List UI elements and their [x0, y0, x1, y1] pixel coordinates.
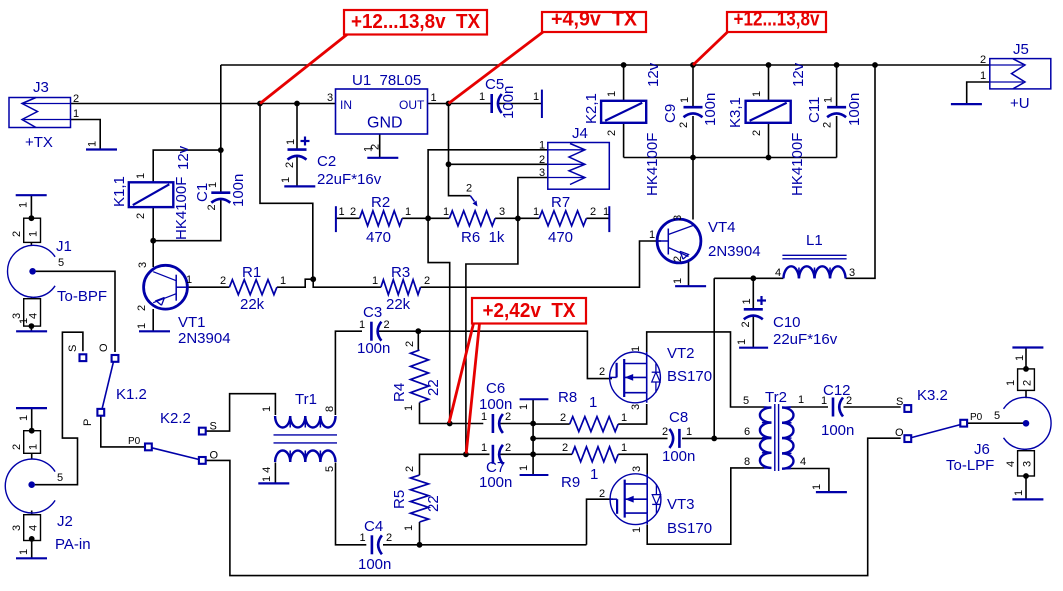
svg-text:J3: J3: [33, 79, 49, 96]
switch K3.2 pole P0: [960, 420, 967, 427]
capacitor C6: [492, 414, 495, 433]
svg-text:3: 3: [137, 262, 149, 268]
svg-text:2: 2: [562, 442, 568, 454]
svg-text:1: 1: [621, 412, 627, 424]
svg-text:2: 2: [404, 466, 416, 472]
svg-text:BS170: BS170: [667, 520, 712, 537]
svg-text:J5: J5: [1013, 41, 1029, 58]
svg-text:J4: J4: [572, 125, 588, 142]
svg-text:22k: 22k: [386, 296, 411, 313]
svg-text:Tr2: Tr2: [765, 389, 787, 406]
wire C9 bottom: [692, 116, 694, 158]
wire J6 shield top to circle: [1025, 390, 1027, 398]
wire R8 left: [533, 423, 570, 425]
wire R9 to VT3 drain: [618, 454, 647, 474]
ground Tr1: [258, 482, 289, 484]
wire Tr1 pin5 to C4: [336, 463, 367, 545]
svg-text:1: 1: [18, 415, 30, 421]
connector J5: [990, 59, 1051, 89]
wire J2 pin5 to K1.2 S: [35, 332, 83, 485]
wire relay bottom rail: [624, 157, 837, 159]
svg-text:O: O: [98, 343, 110, 352]
ground VT1: [139, 330, 170, 332]
node C2 tap: [294, 101, 300, 107]
J6 shield pin block bottom: [1018, 451, 1035, 476]
wire VT3 source to Tr2 pin8: [647, 468, 764, 544]
J2 shield pin block top: [24, 431, 41, 454]
svg-text:1: 1: [431, 92, 437, 104]
svg-text:VT2: VT2: [667, 345, 695, 362]
svg-text:1: 1: [207, 182, 219, 188]
svg-text:1: 1: [980, 70, 986, 82]
wire C10 top: [752, 278, 754, 309]
wire C7 left to R5: [420, 454, 490, 475]
wire R5 bottom: [419, 522, 421, 545]
wire K3.1 pin2: [768, 123, 770, 158]
node rail/C11: [834, 62, 840, 68]
svg-text:100n: 100n: [846, 93, 863, 126]
callout +2,42v TX: [472, 298, 586, 324]
svg-text:IN: IN: [340, 98, 352, 112]
svg-text:2: 2: [73, 93, 79, 105]
node column/C6: [530, 421, 536, 427]
node C3/R4: [415, 328, 421, 334]
capacitor C4: [371, 535, 374, 554]
wire J6 shield bottom: [1025, 449, 1027, 451]
svg-text:3: 3: [630, 404, 642, 410]
svg-text:100n: 100n: [357, 340, 390, 357]
capacitor C11: [827, 106, 846, 109]
svg-text:R3: R3: [391, 264, 410, 281]
svg-text:+U: +U: [1010, 95, 1030, 112]
svg-text:VT3: VT3: [667, 496, 695, 513]
svg-text:1: 1: [603, 206, 609, 218]
resistor R5 (vertical): [411, 475, 429, 522]
svg-text:1: 1: [285, 139, 297, 145]
svg-text:+4,9v TX: +4,9v TX: [551, 9, 638, 31]
svg-text:2: 2: [599, 366, 605, 378]
callout +12...13,8v TX: [344, 10, 487, 35]
svg-text:100n: 100n: [500, 86, 517, 119]
svg-text:2: 2: [678, 122, 690, 128]
svg-text:S: S: [896, 396, 903, 408]
node column/C8: [530, 436, 536, 442]
wire J4 pin2: [449, 163, 548, 165]
svg-text:U1 78L05: U1 78L05: [352, 72, 421, 89]
wire J1 pin5 to K1.2 O: [36, 271, 115, 352]
relay coil K1.1: [129, 182, 174, 207]
svg-text:4: 4: [775, 267, 781, 279]
svg-text:To-LPF: To-LPF: [946, 457, 994, 474]
wire VT2 drain to Tr2 pin5: [647, 332, 764, 407]
svg-text:S: S: [210, 421, 217, 433]
svg-text:1: 1: [28, 444, 40, 450]
svg-text:2: 2: [505, 411, 511, 423]
svg-text:1: 1: [686, 426, 692, 438]
svg-text:1: 1: [589, 394, 597, 411]
svg-text:2: 2: [822, 122, 834, 128]
svg-text:1: 1: [606, 91, 618, 97]
svg-text:1: 1: [1014, 355, 1026, 361]
wire K2.2 S to Tr1 pin1: [206, 394, 276, 431]
svg-text:1: 1: [533, 91, 539, 103]
node J2 shield bottom: [29, 536, 35, 542]
resistor R7: [539, 211, 586, 226]
resistor R8: [570, 417, 619, 432]
wire J1 shield bottom: [30, 297, 32, 299]
svg-text:470: 470: [366, 229, 391, 246]
switch K2.2 contact S: [199, 428, 206, 435]
wire K1.1 pin2 down: [152, 207, 154, 241]
resistor R3: [381, 280, 421, 295]
svg-text:J2: J2: [57, 513, 73, 530]
stub test point bottom: [520, 474, 549, 476]
svg-text:2: 2: [672, 256, 684, 262]
wire R2 to R6 junction: [402, 217, 449, 219]
switch K1.2 lever: [102, 362, 114, 410]
svg-text:+TX: +TX: [25, 134, 53, 151]
svg-text:1: 1: [403, 525, 415, 531]
svg-text:PA-in: PA-in: [55, 536, 91, 553]
capacitor C7: [492, 445, 495, 464]
J2 shield pin block bottom: [24, 515, 41, 541]
wire C2 top: [296, 104, 298, 150]
svg-text:1: 1: [135, 173, 147, 179]
svg-text:GND: GND: [367, 115, 403, 132]
svg-text:2: 2: [539, 154, 545, 166]
wire VT3 gate: [587, 499, 614, 545]
svg-text:2: 2: [350, 206, 356, 218]
wire VT1 collector to R1: [188, 286, 229, 288]
svg-text:C6: C6: [486, 380, 505, 397]
leader line callout 4a: [449, 324, 474, 424]
wiper arrow R6: [470, 196, 474, 202]
wire C8 row left: [532, 437, 534, 439]
svg-text:2: 2: [220, 275, 226, 287]
wire C9 top: [692, 65, 694, 107]
switch K1.2 contact S: [80, 354, 87, 361]
svg-text:22uF*16v: 22uF*16v: [773, 331, 838, 348]
svg-text:100n: 100n: [358, 556, 391, 573]
wire R6-left junction down to C6 row: [428, 218, 450, 423]
svg-text:L1: L1: [806, 232, 823, 249]
svg-text:C8: C8: [669, 409, 688, 426]
svg-text:1: 1: [481, 442, 487, 454]
wire mid row to C8: [533, 437, 667, 439]
svg-text:2: 2: [384, 319, 390, 331]
wire R9 left: [533, 453, 572, 455]
svg-text:1: 1: [533, 206, 539, 218]
svg-text:22uF*16v: 22uF*16v: [317, 171, 382, 188]
wire Tr2 pin1 to C12: [791, 406, 828, 408]
svg-text:1: 1: [741, 298, 753, 304]
svg-text:4: 4: [1005, 461, 1017, 467]
wire R3 to VT4 base: [421, 241, 662, 287]
svg-text:VT1: VT1: [178, 314, 206, 331]
svg-text:R1: R1: [242, 264, 261, 281]
svg-text:5: 5: [324, 466, 336, 472]
leader line callout 4b: [466, 324, 479, 454]
svg-text:C4: C4: [364, 518, 383, 535]
svg-text:1: 1: [751, 91, 763, 97]
svg-text:2: 2: [846, 395, 852, 407]
node J4 pin2: [446, 161, 452, 167]
svg-text:R7: R7: [551, 194, 570, 211]
svg-text:K3.2: K3.2: [917, 387, 948, 404]
wire +12 TX branch from rail B to R1/R3 node: [260, 104, 313, 280]
svg-text:3: 3: [849, 267, 855, 279]
transistor VT4 2N3904: [657, 219, 701, 263]
svg-text:2: 2: [560, 412, 566, 424]
ground +TX: [86, 148, 117, 150]
svg-text:3: 3: [539, 167, 545, 179]
stub pin C5 right: [541, 90, 543, 118]
svg-text:S: S: [67, 345, 79, 352]
wire rail A left drop to C1/K1.1 net: [220, 65, 222, 193]
switch K3.2 contact O: [904, 435, 911, 442]
node R6/R7: [515, 216, 521, 222]
capacitor C10 (polarized): [744, 308, 763, 311]
node rail/K2.1: [621, 62, 627, 68]
svg-text:1: 1: [1013, 490, 1025, 496]
svg-text:R8: R8: [558, 389, 577, 406]
svg-text:1: 1: [339, 206, 345, 218]
wire K2.1 pin1: [623, 65, 625, 101]
resistor R6 potentiometer: [449, 211, 495, 226]
switch K2.2 pole P0: [145, 444, 152, 451]
wire C5 to open stub: [499, 103, 542, 105]
node relay rail/K3.1 pin2: [766, 155, 772, 161]
svg-text:J1: J1: [56, 238, 72, 255]
node C4/R5: [417, 542, 423, 548]
node J6 shield bottom: [1023, 473, 1029, 479]
connector J3: [9, 98, 71, 128]
node +12TX at leader 1: [257, 101, 263, 107]
svg-text:22: 22: [425, 379, 442, 396]
J6 shield pin block top: [1018, 369, 1035, 391]
svg-text:2: 2: [284, 162, 296, 168]
wire +U rail A top: [221, 64, 990, 66]
switch K3.2 contact S: [904, 405, 911, 412]
svg-text:2: 2: [1022, 380, 1034, 386]
svg-text:3: 3: [499, 206, 505, 218]
svg-text:C9: C9: [662, 104, 679, 123]
svg-text:8: 8: [324, 406, 336, 412]
svg-text:2: 2: [599, 488, 605, 500]
svg-text:1: 1: [280, 177, 292, 183]
wire J1 shield top to circle: [30, 242, 32, 245]
svg-text:2: 2: [740, 321, 752, 327]
svg-text:1: 1: [630, 346, 642, 352]
node rail/K3.1: [766, 62, 772, 68]
node C8/Tr2 pin6: [711, 436, 717, 442]
svg-text:To-BPF: To-BPF: [57, 288, 107, 305]
wire K3.2 P0 to J6 pin5: [968, 422, 1024, 424]
svg-text:2N3904: 2N3904: [708, 243, 761, 260]
node rail/L1: [872, 62, 878, 68]
J1 shield pin block top: [24, 218, 41, 242]
svg-text:12v: 12v: [790, 62, 807, 87]
svg-text:2N3904: 2N3904: [178, 330, 231, 347]
switch K2.2 contact O: [199, 457, 206, 464]
svg-text:+12...13,8v: +12...13,8v: [734, 9, 821, 31]
svg-text:HK4100F: HK4100F: [173, 177, 190, 240]
node L1/C10: [750, 275, 756, 281]
wire Tr1 pin8 to C3: [335, 331, 362, 415]
capacitor C3: [370, 322, 373, 341]
svg-text:1: 1: [649, 229, 655, 241]
svg-text:5: 5: [743, 395, 749, 407]
svg-text:6: 6: [744, 426, 750, 438]
svg-text:P0: P0: [970, 412, 983, 423]
svg-text:12v: 12v: [645, 62, 662, 87]
wire J1 shield bottom to ground: [30, 326, 32, 331]
svg-text:1: 1: [621, 442, 627, 454]
leader line callout 3: [693, 32, 728, 65]
svg-text:K2.2: K2.2: [160, 410, 191, 427]
svg-text:2: 2: [135, 213, 147, 219]
wire J5 pin1 to ground: [967, 82, 990, 104]
wire U1 GND pin: [379, 134, 381, 158]
svg-text:1: 1: [28, 231, 40, 237]
wire +TX rail B: [71, 103, 337, 105]
leader line callout 2: [449, 32, 544, 104]
svg-text:100n: 100n: [479, 474, 512, 491]
svg-text:1: 1: [18, 318, 30, 324]
svg-text:R9: R9: [561, 474, 580, 491]
node relay rail/VT4: [690, 155, 696, 161]
wire 4.9v net down to J4 pin2 / R6 wiper: [449, 104, 471, 196]
wire K2.1 pin2: [623, 123, 625, 158]
node rail/C9 leader 3: [690, 62, 696, 68]
svg-text:2: 2: [11, 444, 23, 450]
ground J5: [951, 103, 982, 105]
svg-text:2: 2: [466, 183, 472, 195]
capacitor C12: [832, 398, 835, 417]
svg-text:2: 2: [370, 144, 382, 150]
ground U1: [367, 157, 398, 159]
capacitor C2 (polarized): [288, 148, 307, 151]
node K1.1 pin2/VT1 base: [150, 238, 156, 244]
wire J2 shield bottom: [31, 511, 33, 515]
ground Tr2 pin4: [816, 491, 847, 493]
svg-text:Tr1: Tr1: [295, 391, 317, 408]
callout +4,9v TX: [542, 12, 646, 32]
wire J4 pin1: [428, 150, 548, 219]
wire C6 to test column: [501, 423, 534, 425]
svg-text:OUT: OUT: [399, 98, 425, 112]
ground J6 top: [1012, 346, 1043, 348]
svg-text:1: 1: [87, 141, 99, 147]
svg-text:1: 1: [481, 411, 487, 423]
node J1 shield top: [29, 215, 35, 221]
wire C11 bottom: [836, 116, 838, 158]
svg-text:100n: 100n: [821, 422, 854, 439]
svg-text:2: 2: [980, 54, 986, 66]
node column/C7: [530, 451, 536, 457]
wire C7 right: [501, 453, 534, 455]
svg-text:2: 2: [386, 532, 392, 544]
ground J1 bottom: [16, 330, 47, 332]
svg-text:K3,1: K3,1: [727, 97, 744, 128]
ground C2: [284, 185, 315, 187]
wire J6 shield bottom to ground: [1025, 476, 1027, 499]
switch K2.2 lever: [152, 448, 199, 460]
svg-text:1: 1: [821, 395, 827, 407]
wire R7 to right stub: [586, 217, 609, 219]
svg-text:1: 1: [261, 406, 273, 412]
wire R6/R7 junction down to C7 row: [466, 218, 518, 454]
svg-text:1: 1: [359, 319, 365, 331]
svg-text:C3: C3: [363, 304, 382, 321]
svg-text:+2,42v TX: +2,42v TX: [483, 300, 577, 322]
svg-text:C2: C2: [317, 153, 336, 170]
wire R6 to R7 junction: [495, 217, 539, 219]
svg-text:1: 1: [405, 206, 411, 218]
svg-text:1: 1: [823, 97, 835, 103]
svg-text:3: 3: [11, 525, 23, 531]
svg-text:R2: R2: [371, 194, 390, 211]
svg-text:5: 5: [58, 257, 64, 269]
svg-text:1: 1: [479, 91, 485, 103]
svg-text:2: 2: [751, 130, 763, 136]
node J2 shield top: [29, 428, 35, 434]
stub test point top: [520, 398, 549, 400]
svg-text:O: O: [895, 427, 904, 439]
node J1 shield bottom: [29, 323, 35, 329]
svg-text:1: 1: [372, 275, 378, 287]
svg-text:2: 2: [11, 231, 23, 237]
svg-text:22: 22: [425, 495, 442, 512]
svg-text:1: 1: [518, 465, 530, 471]
svg-text:100n: 100n: [662, 448, 695, 465]
svg-text:1: 1: [518, 404, 530, 410]
wire C1 bottom to K1.1/VT1 node: [153, 200, 221, 241]
relay coil K3.1: [746, 101, 791, 123]
wire J4 pin3: [518, 178, 548, 219]
transistor VT1 2N3904: [144, 265, 188, 309]
svg-text:1: 1: [18, 549, 30, 555]
wire R4 top: [417, 331, 419, 350]
wire K3.1 pin1: [768, 65, 770, 101]
svg-text:2: 2: [590, 206, 596, 218]
svg-text:P0: P0: [128, 436, 141, 447]
svg-text:1 4: 1 4: [261, 467, 273, 482]
wire VT4 collector: [692, 158, 694, 220]
wire J2 shield top: [31, 408, 33, 431]
svg-text:C11: C11: [806, 97, 823, 123]
wire VT1 base: [152, 241, 154, 267]
node C6 row leader: [447, 421, 453, 427]
wire Tr2 pin4 to ground: [791, 469, 829, 493]
svg-text:1: 1: [136, 323, 148, 329]
svg-text:2: 2: [206, 204, 218, 210]
svg-text:1: 1: [1005, 380, 1017, 386]
svg-text:2: 2: [505, 442, 511, 454]
connector J1 BNC: [8, 245, 56, 297]
svg-text:O: O: [210, 450, 219, 462]
capacitor C9: [684, 106, 703, 109]
op-amp U1 78L05 box: [336, 89, 428, 134]
switch K1.2 contact O: [112, 355, 119, 362]
capacitor C8: [678, 429, 681, 448]
connector J4: [548, 143, 610, 190]
svg-text:1: 1: [798, 394, 804, 406]
svg-text:5: 5: [994, 410, 1000, 422]
svg-text:100n: 100n: [230, 174, 247, 207]
svg-text:P: P: [82, 419, 94, 426]
svg-text:1: 1: [443, 206, 449, 218]
